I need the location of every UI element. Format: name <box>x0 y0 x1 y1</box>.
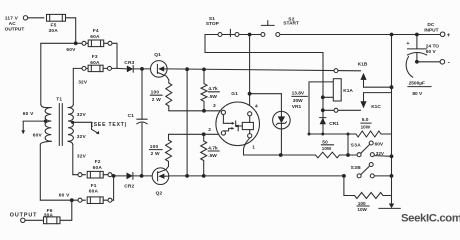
svg-text:2 W: 2 W <box>151 151 160 157</box>
svg-text:OUTPUT: OUTPUT <box>10 212 38 218</box>
svg-text:100: 100 <box>358 201 366 206</box>
svg-text:117 V: 117 V <box>5 15 19 21</box>
svg-text:80 V: 80 V <box>412 91 423 97</box>
svg-text:CR1: CR1 <box>329 121 339 127</box>
svg-text:30A: 30A <box>44 213 54 219</box>
svg-text:60 V: 60 V <box>23 111 34 117</box>
svg-text:.5W: .5W <box>208 153 217 159</box>
svg-text:32V: 32V <box>77 112 87 118</box>
svg-text:5.0: 5.0 <box>362 117 369 123</box>
svg-text:60 V: 60 V <box>426 49 437 55</box>
svg-text:60A: 60A <box>90 34 100 40</box>
svg-text:(SEE TEXT): (SEE TEXT) <box>91 122 127 128</box>
svg-text:AC: AC <box>9 21 17 27</box>
svg-text:13.8V: 13.8V <box>292 91 305 97</box>
svg-text:G1: G1 <box>231 91 238 97</box>
svg-text:F5: F5 <box>51 22 57 28</box>
svg-text:F2: F2 <box>95 159 101 165</box>
svg-text:Q2: Q2 <box>156 191 163 197</box>
svg-text:50: 50 <box>322 139 328 145</box>
svg-text:10W: 10W <box>357 207 367 212</box>
svg-text:100: 100 <box>150 144 159 150</box>
svg-text:OUTPUT: OUTPUT <box>5 27 25 33</box>
svg-text:K1A: K1A <box>343 88 353 94</box>
svg-text:K1C: K1C <box>371 104 381 110</box>
svg-text:60 V: 60 V <box>59 193 70 199</box>
svg-text:10W: 10W <box>361 125 371 130</box>
svg-text:1: 1 <box>252 144 255 150</box>
svg-text:S3A: S3A <box>351 142 362 148</box>
svg-text:INPUT: INPUT <box>424 27 438 33</box>
svg-text:F1: F1 <box>91 183 97 189</box>
svg-text:S3B: S3B <box>351 165 362 171</box>
svg-text:F4: F4 <box>93 28 99 34</box>
svg-text:K1B: K1B <box>358 61 368 67</box>
svg-text:60V: 60V <box>375 141 384 147</box>
svg-text:CR3: CR3 <box>124 60 134 66</box>
svg-text:32V: 32V <box>77 134 87 140</box>
svg-text:30A: 30A <box>49 28 59 34</box>
svg-text:+: + <box>406 41 409 47</box>
svg-text:2500µF: 2500µF <box>409 80 425 86</box>
svg-text:-: - <box>448 60 450 67</box>
svg-text:F3: F3 <box>92 54 98 60</box>
svg-text:3: 3 <box>213 103 216 109</box>
svg-text:60V: 60V <box>66 47 76 53</box>
svg-text:2 W: 2 W <box>152 97 161 103</box>
svg-text:24 TO: 24 TO <box>426 44 440 50</box>
svg-text:32V: 32V <box>77 154 87 160</box>
svg-text:Q1: Q1 <box>154 52 161 58</box>
svg-text:60A: 60A <box>89 188 99 194</box>
svg-text:10W: 10W <box>322 146 332 151</box>
svg-text:4.7k: 4.7k <box>208 86 218 92</box>
svg-text:100: 100 <box>151 90 160 96</box>
svg-text:+: + <box>447 32 451 39</box>
svg-text:60A: 60A <box>93 165 103 171</box>
svg-text:.5W: .5W <box>208 94 217 100</box>
svg-text:60A: 60A <box>90 60 100 66</box>
svg-text:SeekIC.com: SeekIC.com <box>401 212 460 224</box>
svg-text:32V: 32V <box>78 79 88 85</box>
svg-text:T1: T1 <box>56 97 62 103</box>
svg-text:VR1: VR1 <box>292 104 302 110</box>
svg-text:60V: 60V <box>33 133 43 139</box>
svg-text:4.7k: 4.7k <box>208 146 218 152</box>
svg-text:C1: C1 <box>128 113 135 119</box>
svg-text:DC: DC <box>427 22 434 28</box>
svg-text:4: 4 <box>255 104 258 110</box>
svg-text:30W: 30W <box>293 98 303 104</box>
svg-text:CR2: CR2 <box>124 184 134 190</box>
svg-text:32V: 32V <box>376 151 385 156</box>
svg-text:STOP: STOP <box>206 21 220 27</box>
svg-text:START: START <box>283 21 299 27</box>
svg-text:2: 2 <box>208 127 211 133</box>
